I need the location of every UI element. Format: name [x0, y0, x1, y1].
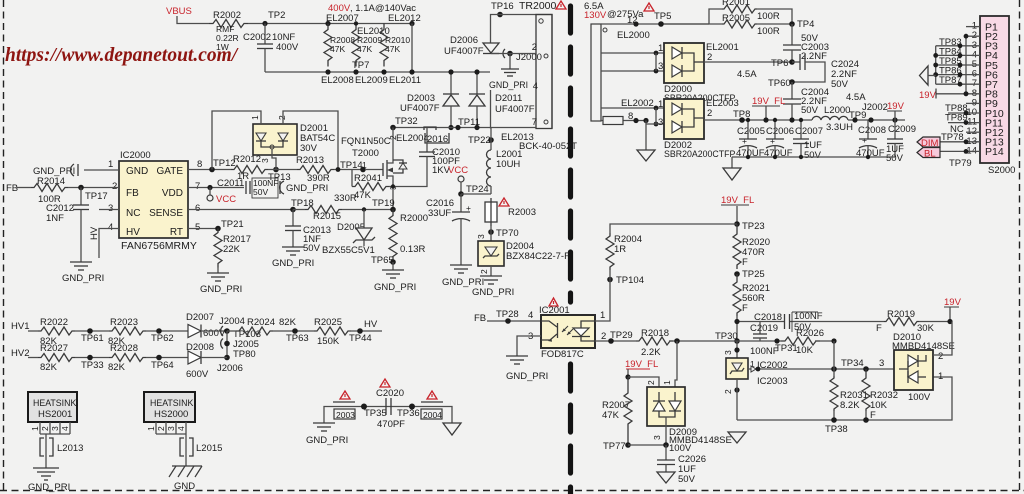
svg-text:TP64: TP64	[151, 360, 174, 371]
svg-text:3: 3	[652, 435, 662, 440]
pin 3 to ground	[506, 331, 548, 382]
svg-text:TP25: TP25	[742, 269, 765, 280]
node HV1	[11, 321, 38, 332]
svg-text:TP7: TP7	[352, 60, 369, 71]
svg-text:7: 7	[532, 117, 537, 128]
svg-text:P14: P14	[985, 146, 1004, 158]
svg-text:100NF: 100NF	[794, 311, 823, 322]
svg-text:3.3UH: 3.3UH	[826, 122, 853, 133]
svg-text:TP78: TP78	[941, 132, 964, 143]
svg-text:3: 3	[166, 426, 176, 431]
svg-text:R2013: R2013	[296, 155, 324, 166]
capacitor C2016 electrolytic	[426, 194, 484, 288]
svg-text:1: 1	[362, 160, 367, 170]
resistor R2007	[602, 377, 632, 445]
svg-text:S2000: S2000	[988, 165, 1015, 176]
node EL2007	[325, 13, 358, 26]
tag DIM	[917, 137, 940, 149]
svg-text:19V: 19V	[919, 90, 937, 101]
svg-text:R2024: R2024	[247, 317, 275, 328]
svg-text:600V: 600V	[186, 369, 209, 380]
ground triangle under IC2002	[728, 432, 746, 443]
node EL2013	[501, 132, 577, 152]
svg-text:22K: 22K	[223, 244, 241, 255]
resistor R2031	[830, 376, 868, 420]
svg-text:F: F	[742, 303, 748, 314]
svg-text:47K: 47K	[385, 44, 400, 54]
svg-text:4: 4	[176, 426, 186, 431]
svg-text:HV2: HV2	[11, 348, 29, 359]
node 19V after L2000	[887, 101, 905, 120]
svg-text:3: 3	[658, 117, 663, 128]
svg-text:VDD: VDD	[162, 188, 183, 199]
svg-text:2: 2	[646, 380, 656, 385]
svg-text:HV: HV	[126, 227, 140, 238]
node TP60	[768, 78, 795, 89]
svg-text:330R: 330R	[334, 193, 357, 204]
node TP44 / HV	[349, 319, 378, 344]
svg-text:TP61: TP61	[81, 333, 104, 344]
svg-text:EL2008: EL2008	[321, 75, 354, 86]
capacitor C2009	[886, 120, 916, 164]
svg-text:NC: NC	[126, 208, 140, 219]
svg-text:TR2000: TR2000	[519, 0, 557, 12]
node TP19	[362, 198, 396, 212]
svg-text:4: 4	[108, 222, 113, 233]
capacitor C2010	[393, 128, 460, 187]
svg-text:EL2007: EL2007	[326, 13, 359, 24]
node VCC at pin7	[207, 188, 236, 206]
svg-text:1R: 1R	[614, 244, 626, 255]
svg-text:2: 2	[723, 389, 733, 394]
resistor R2022	[38, 317, 109, 347]
svg-text:R2019: R2019	[887, 309, 915, 320]
svg-text:3: 3	[50, 426, 60, 431]
svg-text:TP77: TP77	[603, 441, 626, 452]
svg-text:4: 4	[533, 81, 538, 92]
node TP24	[458, 184, 491, 197]
resistor R2023	[108, 317, 188, 347]
wire 19V_FL rail	[733, 109, 812, 123]
node 19V at P8	[919, 89, 968, 102]
connector J2005	[221, 331, 259, 358]
svg-text:TP87: TP87	[939, 75, 962, 86]
svg-text:R2014: R2014	[37, 176, 65, 187]
node TP30	[715, 331, 740, 344]
svg-text:TP63: TP63	[286, 333, 309, 344]
diode D2011 label	[491, 90, 535, 129]
svg-text:SBR20A200CTFP: SBR20A200CTFP	[664, 149, 736, 159]
wire to D2009 pin1	[662, 341, 677, 387]
svg-text:82K: 82K	[40, 362, 58, 373]
svg-text:D2011: D2011	[495, 93, 522, 104]
svg-text:100V: 100V	[669, 443, 692, 454]
node TP13	[268, 167, 297, 183]
svg-text:1: 1	[146, 426, 156, 431]
transformer EL2000 secondary winding	[591, 15, 709, 121]
capacitor C2012	[46, 188, 89, 263]
svg-text:GND_PRI: GND_PRI	[62, 273, 104, 284]
node TP29	[595, 330, 636, 344]
resistor R2028	[108, 343, 188, 373]
isolation barrier dashed line	[568, 6, 573, 494]
ground GND chassis under HS2000	[169, 466, 202, 492]
svg-text:100V: 100V	[908, 392, 931, 403]
svg-text:T2000: T2000	[352, 148, 379, 159]
diode D2010 MMBD4148SE	[892, 322, 955, 404]
svg-text:FOD817C: FOD817C	[541, 349, 584, 360]
capacitor C2013	[272, 210, 331, 270]
svg-text:UF4007F: UF4007F	[495, 104, 535, 115]
svg-text:2004: 2004	[423, 410, 442, 420]
svg-text:19V: 19V	[944, 297, 962, 308]
label 400V 1.1A	[328, 3, 416, 14]
diode D2008	[186, 342, 227, 380]
wire secondary ground rail	[732, 155, 895, 159]
capacitor C2020	[376, 388, 405, 430]
svg-text:BL: BL	[924, 149, 936, 160]
ground GND_PRI at J2000 pin4	[489, 54, 528, 91]
node TP7	[352, 21, 369, 71]
svg-text:2: 2	[479, 269, 489, 274]
pin 2 FB wire / node TP17	[68, 181, 119, 202]
op-amp U IC2000 FAN6756MRMY	[119, 150, 197, 252]
node TP77	[603, 441, 669, 452]
svg-text:R2025: R2025	[314, 317, 342, 328]
svg-text:2: 2	[388, 135, 398, 140]
svg-text:3: 3	[476, 234, 486, 239]
svg-text:5: 5	[195, 222, 200, 233]
svg-text:VCC: VCC	[448, 165, 468, 176]
svg-text:33UF: 33UF	[428, 208, 451, 219]
node 19V right	[944, 297, 962, 324]
svg-text:3: 3	[260, 158, 270, 163]
svg-text:100R: 100R	[757, 26, 780, 37]
node 19V_FL mid	[721, 195, 754, 224]
svg-text:50V: 50V	[253, 187, 268, 197]
pin 8 GATE wire / node TP12	[188, 158, 236, 172]
ferrite bead EL2002	[601, 98, 654, 125]
capacitor C2011	[217, 178, 328, 198]
pin 6 SENSE wire	[188, 203, 293, 214]
svg-text:1: 1	[938, 371, 943, 382]
svg-text:7: 7	[195, 181, 200, 192]
resistor R2001	[709, 0, 792, 24]
svg-text:TP33: TP33	[81, 360, 104, 371]
resistor R2012	[231, 154, 268, 182]
warning triangle IC2001	[549, 298, 558, 306]
node TP62	[151, 328, 174, 344]
svg-text:TP38: TP38	[825, 424, 848, 435]
svg-text:82K: 82K	[279, 317, 297, 328]
capacitor C2002	[243, 24, 299, 73]
svg-text:1: 1	[600, 310, 605, 321]
svg-text:R2026: R2026	[796, 328, 824, 339]
svg-text:47K: 47K	[330, 44, 345, 54]
svg-text:BCK-40-052T: BCK-40-052T	[519, 141, 577, 152]
svg-text:J2002: J2002	[862, 102, 888, 113]
svg-text:4.5A: 4.5A	[737, 69, 757, 80]
diode D2001 BAT54C	[250, 115, 335, 163]
svg-text:2003: 2003	[336, 410, 355, 420]
svg-text:GND_PRI: GND_PRI	[506, 371, 548, 382]
ground GND_PRI left of Y-cap	[306, 423, 348, 446]
svg-text:TP104: TP104	[616, 275, 644, 286]
node TP83	[939, 37, 962, 48]
svg-text:2: 2	[40, 426, 50, 431]
svg-text:3: 3	[879, 358, 884, 369]
node TP28	[496, 309, 533, 324]
inductor L2001	[487, 149, 523, 194]
svg-text:GATE: GATE	[157, 166, 184, 177]
resistor R2015	[293, 193, 393, 222]
optocoupler IC2001 FOD817C	[539, 305, 595, 360]
svg-text:2: 2	[112, 181, 117, 192]
svg-text:VBUS: VBUS	[166, 6, 192, 17]
svg-text:TP70: TP70	[496, 228, 519, 239]
svg-text:2: 2	[277, 115, 287, 120]
svg-text:19V_FL: 19V_FL	[625, 359, 658, 370]
svg-text:GND: GND	[174, 481, 195, 492]
heatsink HS2001	[28, 392, 77, 468]
connector J2004	[219, 316, 261, 340]
svg-text:C2007: C2007	[795, 126, 823, 137]
node TP84	[939, 46, 962, 57]
svg-text:100R: 100R	[757, 11, 780, 22]
svg-text:TP4: TP4	[797, 19, 814, 30]
resistor R2008	[324, 24, 355, 67]
svg-text:GND: GND	[126, 166, 148, 177]
svg-text:R2015: R2015	[313, 211, 341, 222]
svg-text:C2020: C2020	[376, 388, 404, 399]
node TP88	[945, 103, 968, 115]
svg-text:C2009: C2009	[888, 124, 916, 135]
node TP36	[397, 404, 420, 420]
svg-text:EL2004: EL2004	[396, 133, 429, 144]
svg-text:EL2011: EL2011	[389, 75, 421, 86]
resistor R2009	[352, 24, 382, 67]
capacitor C2003	[783, 24, 829, 62]
resistor R2014	[31, 176, 68, 205]
svg-text:2016: 2016	[427, 134, 448, 145]
node TP18	[290, 198, 314, 212]
svg-text:TP34: TP34	[841, 358, 864, 369]
ferrite bead L2015	[180, 438, 222, 456]
svg-text:GND_PRI: GND_PRI	[286, 183, 328, 194]
svg-text:FQN1N50C: FQN1N50C	[341, 136, 391, 147]
svg-text:EL2012: EL2012	[388, 13, 421, 24]
node TP64	[151, 355, 174, 371]
svg-text:1: 1	[30, 426, 40, 431]
node VBUS	[166, 6, 209, 24]
svg-text:8.2K: 8.2K	[840, 400, 860, 411]
svg-text:R2002: R2002	[213, 10, 241, 21]
svg-text:10UH: 10UH	[496, 159, 520, 170]
svg-text:TP2: TP2	[268, 10, 285, 21]
pin 3 NC stub	[99, 203, 119, 214]
resistor R2004	[606, 233, 642, 270]
warning triangle right	[421, 391, 443, 402]
resistor R2019	[834, 309, 950, 334]
svg-text:FB: FB	[126, 188, 139, 199]
svg-text:+: +	[742, 136, 747, 146]
svg-text:TP29: TP29	[610, 330, 633, 341]
svg-text:50V: 50V	[886, 153, 904, 164]
resistor R2018	[636, 328, 737, 358]
svg-text:VCC: VCC	[216, 194, 236, 205]
svg-text:50V: 50V	[801, 105, 819, 116]
svg-text:IC2003: IC2003	[757, 376, 788, 387]
svg-text:J2006: J2006	[217, 363, 243, 374]
node TP61	[81, 328, 104, 344]
pin 5 RT wire / node TP21	[188, 219, 244, 233]
ground GND_PRI under R2000	[374, 270, 416, 293]
connector S2000	[980, 16, 1015, 176]
ground GND_PRI under HS2001	[28, 468, 70, 493]
node TP63	[286, 328, 309, 344]
node TP78	[941, 132, 968, 144]
svg-text:GND_PRI: GND_PRI	[489, 80, 528, 90]
svg-text:+: +	[862, 135, 867, 145]
node TP65	[371, 255, 396, 270]
svg-text:IC2000: IC2000	[120, 150, 151, 161]
wire TP38 rail	[737, 377, 952, 435]
svg-text:4: 4	[528, 310, 533, 321]
svg-text:4: 4	[60, 426, 70, 431]
svg-text:19V_FL: 19V_FL	[752, 96, 785, 107]
svg-text:TP5: TP5	[654, 11, 671, 22]
node TP6	[771, 58, 795, 69]
label 4.5A right	[846, 92, 866, 103]
svg-text:L2000: L2000	[824, 105, 850, 116]
transformer TR2000	[491, 0, 557, 129]
svg-text:D2006: D2006	[450, 35, 478, 46]
arrow 19V bus	[920, 66, 936, 85]
svg-text:19V_FL: 19V_FL	[721, 195, 754, 206]
connector J2000	[491, 49, 542, 63]
svg-text:TP62: TP62	[151, 333, 174, 344]
svg-text:1: 1	[662, 380, 672, 385]
capacitor C2026	[657, 445, 706, 485]
svg-text:FB: FB	[6, 183, 18, 194]
svg-text:GND_PRI: GND_PRI	[28, 482, 70, 493]
svg-text:400V: 400V	[276, 42, 299, 53]
rectifier D2002 SBR20A200CTFP	[601, 98, 742, 159]
node 19V_FL lower	[625, 359, 659, 387]
wire drain rail TP32-TP11	[390, 116, 536, 130]
svg-text:UF4007F: UF4007F	[444, 46, 484, 57]
resistor R2017	[214, 229, 251, 274]
ferrite bead L2003	[334, 409, 355, 420]
svg-text:https://www.depanetout.com/: https://www.depanetout.com/	[5, 45, 239, 66]
svg-text:J2004: J2004	[219, 316, 245, 327]
svg-text:TP22: TP22	[468, 135, 491, 146]
svg-text:L2013: L2013	[57, 443, 83, 454]
svg-text:R2018: R2018	[641, 328, 669, 339]
ground triangle right of Y-cap	[443, 423, 461, 435]
node NC	[950, 124, 964, 135]
svg-text:GND_PRI: GND_PRI	[272, 258, 314, 269]
wire D2001 pin3 to TP13	[272, 149, 276, 170]
diode D2005 zener BZX55C5V1	[322, 210, 375, 257]
svg-text:3: 3	[723, 350, 733, 355]
capacitor C2024	[792, 54, 859, 90]
node TP22	[468, 128, 494, 151]
resistor R2025	[314, 317, 382, 347]
ground GND_PRI under D2004	[472, 276, 514, 298]
svg-text:HV: HV	[364, 319, 378, 330]
svg-text:TP36: TP36	[397, 408, 420, 419]
svg-text:TP35: TP35	[364, 408, 387, 419]
svg-text:FB: FB	[474, 313, 486, 324]
svg-text:EL2009: EL2009	[355, 75, 388, 86]
svg-text:10K: 10K	[796, 345, 814, 356]
wire 19V rail after L2000	[848, 102, 905, 123]
svg-text:BZX55C5V1: BZX55C5V1	[322, 245, 375, 256]
svg-text:R2000: R2000	[400, 213, 428, 224]
svg-text:50V: 50V	[831, 79, 849, 90]
node TP70	[476, 226, 519, 241]
rectifier D2000 SBR20A200CTFP	[601, 42, 792, 103]
svg-text:UF4007F: UF4007F	[400, 103, 440, 114]
svg-text:EL2002: EL2002	[621, 98, 654, 109]
node TP89	[945, 113, 968, 125]
svg-text:50V: 50V	[678, 474, 696, 485]
warning triangle 275V	[644, 3, 654, 11]
wire S2000 row stubs and 19V bus	[933, 27, 980, 152]
svg-text:TP31: TP31	[775, 343, 798, 354]
diode D2009 MMBD4148SE	[647, 387, 732, 454]
ferrite bead L2013	[40, 438, 83, 456]
svg-text:2: 2	[707, 108, 712, 119]
diode D2003 (dual)	[400, 69, 485, 130]
svg-text:HEATSINK: HEATSINK	[33, 398, 76, 408]
node EL2012	[388, 13, 421, 72]
svg-text:TP14: TP14	[340, 160, 363, 171]
svg-text:2: 2	[938, 351, 943, 362]
warning triangle TR2000	[556, 1, 566, 9]
node TP35	[361, 404, 387, 420]
svg-text:2: 2	[156, 426, 166, 431]
capacitor C2006 electrolytic	[764, 118, 794, 159]
wire D2001 pin2 to gate node	[283, 111, 338, 170]
pin 7 VDD wire	[188, 181, 244, 192]
node VCC supply	[448, 165, 468, 194]
node TP79	[949, 149, 972, 169]
wire EL2008 rail	[265, 69, 490, 74]
svg-text:0.13R: 0.13R	[400, 244, 425, 255]
fusible resistor R2003	[485, 198, 536, 226]
svg-text:R2028: R2028	[110, 343, 138, 354]
svg-text:3: 3	[658, 61, 663, 72]
node TP5	[654, 11, 671, 27]
resistor R2041	[352, 170, 395, 202]
node FB secondary	[474, 313, 541, 324]
wire D2001 pin1 to TP12	[212, 111, 261, 170]
svg-text:470PF: 470PF	[377, 419, 405, 430]
wire Y-cap bridge	[324, 407, 452, 424]
node TP33	[81, 355, 104, 371]
svg-text:SENSE: SENSE	[149, 208, 183, 219]
wire TP30 row	[737, 338, 798, 354]
pin numbers S2000	[966, 21, 977, 157]
svg-text:2.2K: 2.2K	[641, 347, 661, 358]
svg-text:6: 6	[195, 203, 200, 214]
svg-text:50V: 50V	[804, 150, 822, 161]
resistor R2020	[733, 224, 770, 269]
resistor R2021	[733, 274, 770, 341]
svg-text:1: 1	[658, 99, 663, 110]
